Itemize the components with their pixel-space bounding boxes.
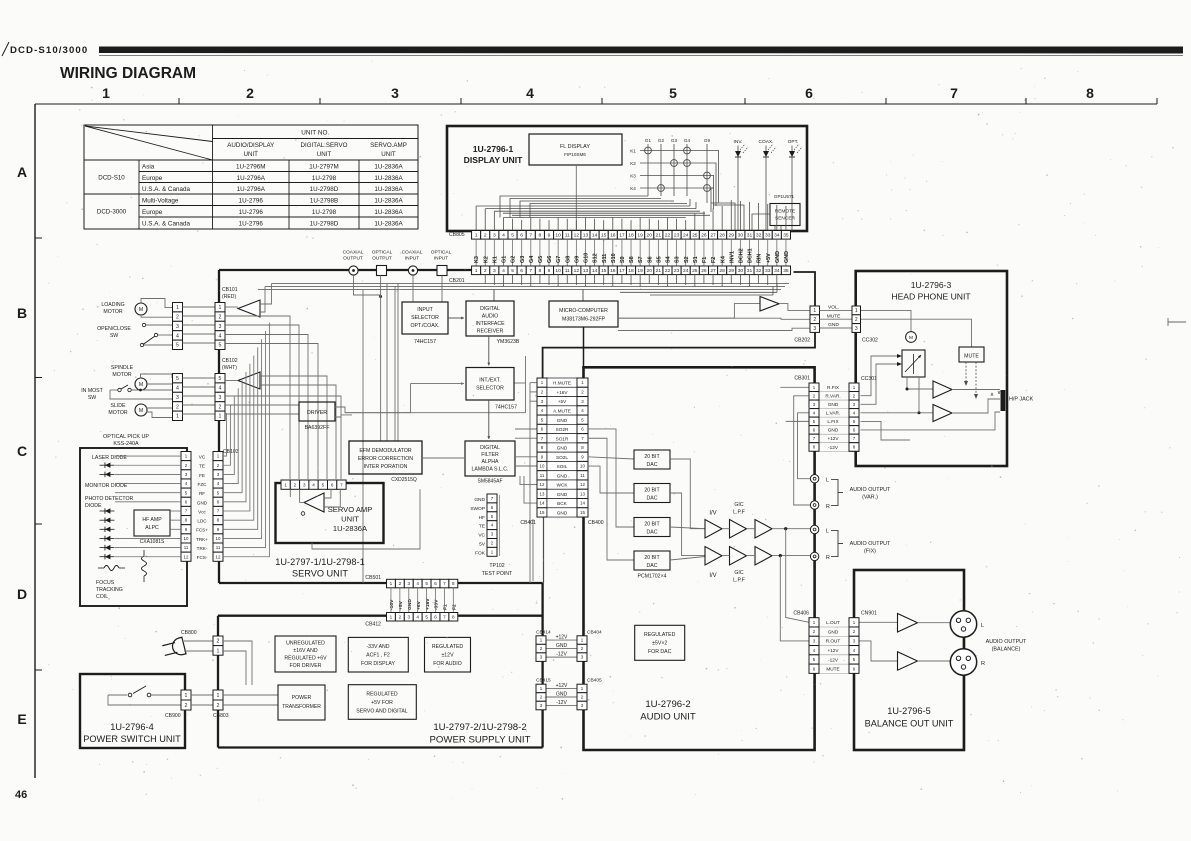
svg-text:3: 3 bbox=[176, 324, 179, 330]
svg-text:F2: F2 bbox=[711, 257, 717, 263]
svg-text:(BALANCE): (BALANCE) bbox=[992, 647, 1021, 653]
svg-text:G9: G9 bbox=[574, 256, 580, 263]
svg-text:SO1R: SO1R bbox=[556, 436, 569, 441]
CB102 wires to bus bbox=[260, 376, 327, 479]
svg-text:∨: ∨ bbox=[997, 390, 1001, 396]
plug wires bbox=[184, 640, 213, 642]
svg-text:G9: G9 bbox=[704, 138, 711, 143]
svg-text:22: 22 bbox=[665, 268, 671, 274]
svg-text:10: 10 bbox=[555, 268, 561, 274]
svg-text:FZC: FZC bbox=[198, 482, 208, 487]
svg-text:1U-2836A: 1U-2836A bbox=[374, 175, 403, 182]
svg-text:+16V: +16V bbox=[556, 390, 568, 395]
svg-text:L.VAR.: L.VAR. bbox=[826, 411, 841, 416]
svg-text:CB415: CB415 bbox=[536, 678, 551, 684]
svg-text:S10: S10 bbox=[611, 253, 617, 263]
svg-text:M38173M6-292FP: M38173M6-292FP bbox=[562, 317, 606, 323]
svg-text:R.OUT: R.OUT bbox=[826, 639, 841, 644]
svg-text:OPT./COAX.: OPT./COAX. bbox=[410, 323, 439, 329]
DAC3 box bbox=[634, 518, 670, 537]
svg-text:RIN: RIN bbox=[757, 254, 763, 263]
power transformer box bbox=[278, 685, 325, 720]
svg-text:SPINDLE: SPINDLE bbox=[111, 365, 134, 371]
coaxial output jack bbox=[349, 266, 358, 275]
svg-text:8: 8 bbox=[539, 268, 542, 274]
unregulated box bbox=[275, 636, 336, 672]
svg-text:RECEIVER: RECEIVER bbox=[477, 329, 504, 335]
svg-text:INV.: INV. bbox=[734, 139, 743, 145]
wire pin6 ground loop bbox=[861, 412, 1001, 430]
svg-text:I/V: I/V bbox=[709, 573, 716, 579]
opamp row1 bbox=[705, 520, 722, 539]
svg-text:±16V AND: ±16V AND bbox=[293, 648, 317, 654]
headphone amp lower bbox=[933, 405, 952, 422]
DAC4 box bbox=[634, 551, 670, 570]
svg-text:GND: GND bbox=[556, 691, 568, 697]
svg-text:M: M bbox=[139, 307, 143, 313]
svg-text:26: 26 bbox=[701, 233, 707, 239]
svg-text:SENCER: SENCER bbox=[775, 216, 796, 222]
servo unit outer box (left edge + top bus) bbox=[218, 270, 220, 583]
svg-text:-12V: -12V bbox=[828, 445, 839, 450]
svg-text:K4: K4 bbox=[720, 256, 726, 263]
svg-text:20 BIT: 20 BIT bbox=[644, 522, 660, 528]
svg-text:SO2R: SO2R bbox=[556, 427, 569, 432]
wires between 5pin connectors bbox=[183, 306, 216, 308]
connector (motor side) 5pin bbox=[173, 303, 183, 312]
power supply right edge riser bbox=[541, 583, 543, 748]
svg-text:DCD-3000: DCD-3000 bbox=[97, 209, 127, 216]
svg-text:22: 22 bbox=[665, 233, 671, 239]
svg-text:H/P JACK: H/P JACK bbox=[1009, 397, 1034, 403]
svg-text:F2: F2 bbox=[452, 604, 458, 610]
svg-text:32: 32 bbox=[756, 268, 762, 274]
servo amp unit box bbox=[276, 483, 384, 543]
svg-text:1U-2836A: 1U-2836A bbox=[333, 524, 368, 533]
svg-text:SM5845AF: SM5845AF bbox=[477, 479, 502, 485]
svg-text:11: 11 bbox=[565, 233, 570, 239]
svg-text:1: 1 bbox=[284, 482, 287, 487]
driver box bbox=[299, 402, 335, 421]
input selector box bbox=[402, 302, 448, 334]
svg-text:DAC: DAC bbox=[647, 496, 658, 502]
svg-text:4: 4 bbox=[312, 482, 315, 487]
svg-text:6: 6 bbox=[520, 233, 523, 239]
svg-text:L.P.F: L.P.F bbox=[733, 578, 745, 584]
svg-text:3: 3 bbox=[219, 395, 222, 401]
svg-text:DISPLAY UNIT: DISPLAY UNIT bbox=[464, 155, 523, 165]
RCA jack L var bbox=[810, 475, 818, 483]
connector pin signal names bbox=[475, 239, 477, 266]
svg-text:1U-2836A: 1U-2836A bbox=[374, 220, 403, 227]
connector CC301 bbox=[849, 383, 859, 392]
loading motor wires bbox=[141, 299, 173, 308]
connector CB803 bbox=[213, 690, 223, 700]
CB401 signal names bbox=[547, 378, 577, 387]
HP jack symbol bbox=[1001, 390, 1006, 411]
svg-text:AUDIO/DISPLAY: AUDIO/DISPLAY bbox=[227, 142, 274, 149]
svg-text:1U-2796: 1U-2796 bbox=[239, 209, 264, 216]
svg-text:S1: S1 bbox=[693, 256, 699, 263]
svg-text:5: 5 bbox=[176, 343, 179, 349]
svg-text:OPTICAL: OPTICAL bbox=[431, 250, 452, 256]
svg-text:23: 23 bbox=[674, 233, 680, 239]
svg-text:GND: GND bbox=[557, 446, 568, 451]
svg-text:S9: S9 bbox=[620, 256, 626, 263]
svg-text:5: 5 bbox=[219, 343, 222, 349]
svg-text:SOIL: SOIL bbox=[557, 464, 568, 469]
svg-text:2: 2 bbox=[294, 482, 297, 487]
svg-text:2: 2 bbox=[219, 314, 222, 320]
svg-text:1U-2796A: 1U-2796A bbox=[237, 186, 266, 193]
wire Rfix to CN pin3 bbox=[780, 556, 809, 641]
svg-text:GND: GND bbox=[828, 322, 839, 328]
svg-text:TRANSFORMER: TRANSFORMER bbox=[282, 704, 321, 710]
audio unit box bbox=[584, 367, 815, 750]
wire SO2L to DAC1 bbox=[588, 457, 634, 459]
top ruler line bbox=[35, 103, 1157, 105]
svg-text:4: 4 bbox=[502, 268, 505, 274]
svg-text:K2: K2 bbox=[630, 161, 636, 166]
CB415 CB405 link bbox=[546, 687, 577, 689]
svg-text:G3: G3 bbox=[671, 138, 678, 143]
svg-text:74HC157: 74HC157 bbox=[495, 405, 517, 411]
svg-text:SWOP: SWOP bbox=[470, 506, 485, 512]
svg-text:SERVO AMP: SERVO AMP bbox=[328, 505, 373, 514]
svg-text:CB405: CB405 bbox=[587, 678, 602, 684]
svg-text:H.MUTE: H.MUTE bbox=[553, 381, 571, 386]
svg-text:35: 35 bbox=[783, 233, 789, 239]
connector CB102 bbox=[215, 374, 225, 383]
svg-text:M: M bbox=[909, 335, 913, 341]
svg-text:-12V: -12V bbox=[556, 700, 567, 706]
svg-text:3: 3 bbox=[493, 233, 496, 239]
buffer at CB102 bbox=[238, 372, 260, 389]
svg-text:12: 12 bbox=[540, 482, 545, 487]
opamp row2 bbox=[705, 547, 722, 566]
svg-text:5: 5 bbox=[425, 614, 428, 619]
svg-text:INT./EXT.: INT./EXT. bbox=[479, 378, 501, 384]
svg-text:1U-2796: 1U-2796 bbox=[239, 197, 264, 204]
svg-text:AUDIO UNIT: AUDIO UNIT bbox=[640, 712, 696, 723]
svg-text:GND: GND bbox=[557, 473, 568, 478]
test point TP102 bbox=[487, 494, 497, 503]
mute dashed outputs bbox=[965, 362, 967, 383]
svg-text:INPUT: INPUT bbox=[434, 256, 448, 262]
svg-text:DAC: DAC bbox=[647, 530, 658, 536]
RCA jack R var bbox=[810, 501, 818, 509]
svg-text:C: C bbox=[17, 443, 27, 459]
svg-text:FILTER: FILTER bbox=[481, 452, 499, 458]
svg-text:1U-2836A: 1U-2836A bbox=[374, 163, 403, 170]
svg-text:11: 11 bbox=[216, 545, 221, 550]
svg-text:(VAR.): (VAR.) bbox=[862, 495, 878, 501]
svg-text:SELECTOR: SELECTOR bbox=[411, 315, 439, 321]
pickup-side connector 12pin bbox=[181, 452, 191, 461]
svg-text:K1: K1 bbox=[492, 256, 498, 263]
svg-text:K1: K1 bbox=[630, 149, 636, 154]
svg-text:6: 6 bbox=[331, 482, 334, 487]
connector CB412 strip bbox=[387, 613, 396, 622]
svg-text:PCM1702×4: PCM1702×4 bbox=[638, 574, 667, 580]
svg-text:SLIDE: SLIDE bbox=[111, 403, 127, 409]
svg-text:ALPHA: ALPHA bbox=[481, 459, 499, 465]
svg-text:4: 4 bbox=[219, 385, 222, 391]
svg-text:TP102: TP102 bbox=[489, 563, 504, 569]
svg-text:CB805: CB805 bbox=[449, 232, 465, 238]
svg-text:CB412: CB412 bbox=[365, 622, 381, 628]
svg-text:REMOTE: REMOTE bbox=[775, 209, 796, 215]
svg-text:12: 12 bbox=[216, 554, 221, 559]
svg-text:11: 11 bbox=[580, 473, 585, 478]
RCA jack R fix bbox=[810, 552, 818, 560]
svg-text:-12V: -12V bbox=[828, 657, 839, 662]
svg-text:GND: GND bbox=[557, 418, 568, 423]
svg-text:7: 7 bbox=[443, 614, 446, 619]
svg-text:MUTE: MUTE bbox=[827, 313, 841, 319]
svg-text:M: M bbox=[139, 382, 143, 388]
svg-text:10: 10 bbox=[555, 233, 561, 239]
svg-text:VC: VC bbox=[199, 455, 206, 460]
svg-text:3: 3 bbox=[493, 268, 496, 274]
svg-text:UNREGULATED: UNREGULATED bbox=[286, 641, 325, 647]
svg-text:21: 21 bbox=[656, 233, 662, 239]
svg-text:DCD-S10/3000: DCD-S10/3000 bbox=[10, 45, 88, 56]
svg-text:1: 1 bbox=[185, 693, 188, 699]
svg-text:POWER SWITCH UNIT: POWER SWITCH UNIT bbox=[83, 734, 181, 744]
svg-text:DIODE: DIODE bbox=[85, 503, 102, 509]
svg-text:+12V: +12V bbox=[556, 635, 568, 641]
svg-text:18: 18 bbox=[628, 233, 634, 239]
CB202-CC302 wires bbox=[820, 309, 853, 311]
svg-text:LAMBDA S.L.C.: LAMBDA S.L.C. bbox=[472, 467, 509, 473]
svg-text:+5V: +5V bbox=[558, 399, 567, 404]
svg-text:14: 14 bbox=[592, 268, 598, 274]
svg-text:1U-2796-2: 1U-2796-2 bbox=[645, 699, 690, 710]
svg-text:TE: TE bbox=[479, 524, 485, 530]
svg-text:1U-2796: 1U-2796 bbox=[239, 220, 264, 227]
svg-text:A.MUTE: A.MUTE bbox=[553, 409, 571, 414]
svg-text:4: 4 bbox=[219, 333, 222, 339]
svg-text:FOR DAC: FOR DAC bbox=[648, 649, 672, 655]
svg-text:GND: GND bbox=[407, 599, 413, 610]
svg-text:GND: GND bbox=[197, 500, 208, 505]
connector CB805 strip bbox=[472, 231, 481, 240]
main H.MUTE bus CB201 to CB401 bbox=[543, 272, 815, 378]
left border line bbox=[34, 104, 36, 778]
svg-text:4: 4 bbox=[176, 333, 179, 339]
main bus line to CB201 bbox=[219, 269, 472, 271]
svg-text:COAXIAL: COAXIAL bbox=[402, 250, 423, 256]
svg-text:AUDIO OUTPUT: AUDIO OUTPUT bbox=[986, 639, 1027, 645]
amp output wires to jack bbox=[952, 389, 1000, 391]
svg-text:LOADING: LOADING bbox=[101, 302, 124, 308]
svg-text:2: 2 bbox=[399, 581, 402, 586]
svg-text:26: 26 bbox=[701, 268, 707, 274]
svg-text:10: 10 bbox=[184, 536, 189, 541]
svg-text:29: 29 bbox=[729, 233, 735, 239]
svg-text:L.OUT: L.OUT bbox=[826, 620, 840, 625]
svg-text:1U-2796A: 1U-2796A bbox=[237, 175, 266, 182]
svg-text:R: R bbox=[826, 504, 830, 510]
volume pot bbox=[902, 350, 925, 377]
svg-text:MOTOR: MOTOR bbox=[112, 372, 131, 378]
optical input jack bbox=[437, 266, 447, 276]
connector CB201 strip bbox=[472, 266, 481, 275]
svg-text:28: 28 bbox=[719, 268, 725, 274]
wire SO2R to DAC3 bbox=[588, 429, 634, 527]
svg-text:K4: K4 bbox=[630, 186, 636, 191]
svg-text:25: 25 bbox=[692, 268, 698, 274]
AC plug bbox=[162, 637, 186, 659]
svg-text:16: 16 bbox=[610, 268, 616, 274]
svg-text:CXA1081S: CXA1081S bbox=[140, 539, 165, 545]
svg-text:KSS-240A: KSS-240A bbox=[113, 441, 139, 447]
svg-text:WCK: WCK bbox=[557, 483, 569, 488]
svg-text:CB401: CB401 bbox=[520, 520, 536, 526]
svg-text:31: 31 bbox=[747, 233, 753, 239]
svg-text:DIGITAL: DIGITAL bbox=[480, 306, 500, 312]
svg-text:DAC: DAC bbox=[647, 563, 658, 569]
svg-text:11: 11 bbox=[184, 545, 189, 550]
svg-text:D: D bbox=[17, 586, 27, 602]
L fix output wire bbox=[772, 528, 811, 530]
pot output wires bbox=[907, 377, 933, 389]
connector CC301 redraw bbox=[849, 383, 859, 392]
svg-text:2: 2 bbox=[219, 404, 222, 410]
mute box bbox=[959, 347, 984, 362]
CB401 left wires bbox=[530, 382, 537, 384]
svg-text:CN901: CN901 bbox=[861, 611, 877, 617]
wire SOIL to DAC2 bbox=[588, 466, 634, 493]
svg-text:Europe: Europe bbox=[142, 175, 163, 182]
svg-text:FCS-: FCS- bbox=[197, 555, 208, 560]
balance amp L bbox=[898, 614, 918, 633]
svg-text:B: B bbox=[17, 305, 27, 321]
svg-text:+12V: +12V bbox=[827, 436, 839, 441]
svg-text:S8: S8 bbox=[629, 256, 635, 263]
svg-text:CB900: CB900 bbox=[165, 713, 181, 719]
amp to XLR wires bbox=[918, 622, 951, 624]
svg-text:DCH1: DCH1 bbox=[748, 248, 754, 263]
svg-text:+16V: +16V bbox=[425, 598, 431, 610]
svg-text:FOR AUDIO: FOR AUDIO bbox=[433, 661, 462, 667]
svg-text:UNIT: UNIT bbox=[341, 515, 359, 524]
svg-text:4: 4 bbox=[416, 614, 419, 619]
svg-text:10: 10 bbox=[580, 464, 585, 469]
svg-text:1U-2836A: 1U-2836A bbox=[374, 197, 403, 204]
svg-text:1U-2797-1/1U-2798-1: 1U-2797-1/1U-2798-1 bbox=[275, 557, 364, 567]
svg-text:+5V FOR: +5V FOR bbox=[371, 700, 393, 706]
svg-text:S12: S12 bbox=[593, 253, 599, 263]
svg-text:INV1: INV1 bbox=[729, 251, 735, 263]
selector to DAIR arrow bbox=[448, 317, 464, 319]
header black bar bbox=[99, 47, 1183, 54]
svg-text:SW: SW bbox=[110, 333, 118, 339]
digital filter box bbox=[465, 441, 515, 476]
svg-text:AUDIO: AUDIO bbox=[482, 314, 498, 320]
wire micro to CB202 pin2 bbox=[618, 318, 810, 319]
svg-text:OUTPUT: OUTPUT bbox=[372, 256, 392, 262]
svg-text:G2: G2 bbox=[658, 138, 665, 143]
svg-text:FL DISPLAY: FL DISPLAY bbox=[560, 144, 590, 150]
svg-text:INPUT: INPUT bbox=[417, 307, 433, 313]
svg-text:S5: S5 bbox=[656, 256, 662, 263]
svg-text:2: 2 bbox=[246, 85, 254, 101]
CB803 wires to transformer bbox=[223, 694, 278, 696]
svg-text:27: 27 bbox=[710, 268, 716, 274]
svg-text:3: 3 bbox=[219, 324, 222, 330]
wires bundle left drops bbox=[386, 284, 388, 442]
svg-text:(FIX): (FIX) bbox=[864, 549, 876, 555]
svg-text:INTERFACE: INTERFACE bbox=[475, 321, 505, 327]
svg-text:(RED): (RED) bbox=[222, 294, 236, 300]
regulated +5V box bbox=[348, 685, 416, 720]
svg-text:GND: GND bbox=[784, 251, 790, 263]
svg-text:24: 24 bbox=[683, 233, 689, 239]
svg-text:GND: GND bbox=[828, 402, 839, 407]
svg-text:FCS+: FCS+ bbox=[196, 528, 208, 533]
wire coax input to selector bbox=[412, 275, 414, 302]
servo amp underline wire bbox=[312, 489, 420, 549]
svg-text:COIL: COIL bbox=[96, 594, 108, 600]
svg-text:1: 1 bbox=[475, 233, 478, 239]
pickup wires to connector bbox=[115, 455, 181, 457]
svg-text:DCD-S10: DCD-S10 bbox=[98, 175, 125, 182]
svg-text:POWER: POWER bbox=[292, 695, 312, 701]
svg-text:SERVO AND DIGITAL: SERVO AND DIGITAL bbox=[356, 709, 408, 715]
svg-text:FOR DISPLAY: FOR DISPLAY bbox=[361, 661, 395, 667]
svg-text:6: 6 bbox=[520, 268, 523, 274]
digital filter to CB401 wires bbox=[515, 428, 537, 430]
svg-text:29: 29 bbox=[729, 268, 735, 274]
svg-text:DCH2: DCH2 bbox=[738, 248, 744, 263]
svg-text:G1: G1 bbox=[502, 256, 508, 263]
svg-text:+12V: +12V bbox=[827, 648, 839, 653]
connector CC302 bbox=[852, 306, 861, 315]
svg-text:S2: S2 bbox=[684, 256, 690, 263]
svg-text:S4: S4 bbox=[666, 256, 672, 263]
optical output jack bbox=[377, 266, 387, 276]
-33V box bbox=[348, 637, 408, 672]
svg-text:FOR DRIVER: FOR DRIVER bbox=[290, 663, 322, 669]
svg-text:RF: RF bbox=[199, 491, 205, 496]
svg-text:+12V: +12V bbox=[556, 683, 568, 689]
balance amp R bbox=[898, 652, 918, 671]
connector CN901 bbox=[849, 618, 859, 627]
svg-text:1: 1 bbox=[390, 614, 393, 619]
svg-text:20: 20 bbox=[647, 233, 653, 239]
svg-text:I/V: I/V bbox=[709, 511, 716, 517]
svg-text:REGULATED: REGULATED bbox=[366, 692, 398, 698]
CC301 wire pin3 to pot bbox=[861, 364, 903, 404]
svg-text:31: 31 bbox=[747, 268, 753, 274]
grid-to-connector bus lines bbox=[500, 196, 648, 218]
wire bundle to D.A.I.R. bbox=[493, 290, 495, 302]
svg-text:4: 4 bbox=[502, 233, 505, 239]
svg-text:TRK+: TRK+ bbox=[196, 537, 208, 542]
svg-text:DAC: DAC bbox=[647, 462, 658, 468]
svg-text:CXD2515Q: CXD2515Q bbox=[391, 477, 417, 483]
DAC1 box bbox=[634, 450, 670, 469]
svg-text:R.FIX: R.FIX bbox=[827, 385, 840, 390]
svg-text:SW: SW bbox=[88, 395, 96, 401]
svg-text:34: 34 bbox=[774, 233, 780, 239]
svg-text:IN MOST: IN MOST bbox=[81, 388, 103, 394]
svg-text:MOTOR: MOTOR bbox=[103, 309, 122, 315]
svg-text:GIC: GIC bbox=[734, 502, 743, 508]
connector CB800 bbox=[213, 636, 223, 646]
